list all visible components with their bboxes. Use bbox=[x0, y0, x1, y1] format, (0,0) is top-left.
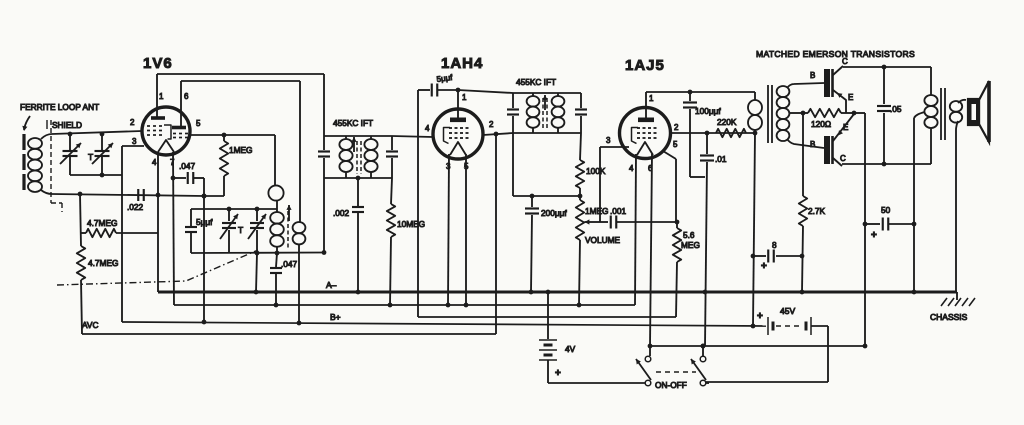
junction switch line / pole2 bbox=[701, 344, 706, 349]
V1 plate pin 6 electrode bbox=[172, 126, 186, 130]
tuning gang dash-dot link bbox=[57, 250, 258, 285]
oscillator transformer T1 tank winding bbox=[270, 212, 284, 224]
IF transformer T3 top rail bbox=[513, 92, 581, 94]
potentiometer R6 1MEG VOLUME bbox=[576, 200, 584, 240]
junction 50uf right bbox=[912, 222, 917, 227]
speaker SP1 cone bbox=[979, 81, 989, 142]
junction 1MEG bottom wire bbox=[202, 194, 207, 199]
capacitor C10 5uuf neutralizing bbox=[418, 89, 430, 91]
wire AVC drop from V2 pin 2 bbox=[495, 134, 497, 334]
junction pin2 / .01 bbox=[705, 131, 710, 136]
svg-text:+: + bbox=[871, 230, 877, 241]
IF transformer T3 left capacitor bbox=[512, 93, 514, 108]
wire secondary center tap bbox=[789, 112, 803, 114]
svg-text:SHIELD: SHIELD bbox=[52, 120, 82, 130]
wire V1 pin 1 rail bbox=[157, 73, 324, 75]
svg-text:1: 1 bbox=[649, 94, 654, 103]
IF transformer T2 left capacitor bbox=[318, 150, 330, 152]
output transformer T5 secondary winding bbox=[950, 101, 962, 112]
svg-text:4: 4 bbox=[425, 124, 430, 133]
junction A- tank drop bbox=[254, 290, 259, 295]
IF transformer T3 core bbox=[542, 98, 544, 130]
junction C2 bottom rail bbox=[100, 173, 105, 178]
wire oscillator tank top rail bbox=[191, 208, 277, 210]
svg-text:T: T bbox=[238, 225, 243, 235]
transistor Q1 emitter bbox=[833, 90, 846, 113]
svg-text:MATCHED EMERSON TRANSISTORS: MATCHED EMERSON TRANSISTORS bbox=[756, 49, 915, 59]
transistor Q1 base bar bbox=[824, 69, 830, 97]
V2 plate electrode bbox=[450, 118, 466, 123]
capacitor C17 50uf electrolytic bbox=[865, 223, 880, 225]
svg-text:+: + bbox=[761, 261, 767, 272]
wire tuning capacitor bottom rail bbox=[70, 174, 122, 176]
svg-text:.022: .022 bbox=[127, 202, 144, 212]
svg-text:CHASSIS: CHASSIS bbox=[930, 312, 968, 322]
resistor R4 10MEG bbox=[391, 178, 392, 204]
wire AVC riser bbox=[81, 280, 82, 334]
junction switch line / pole1 bbox=[648, 344, 653, 349]
wire switch line bbox=[650, 345, 865, 347]
wire Q2 collector rail bbox=[842, 163, 931, 165]
capacitor C4 .047 bbox=[173, 177, 186, 179]
resistor R3 1MEG bbox=[223, 135, 225, 141]
junction lower rail / .05 bbox=[882, 162, 887, 167]
svg-text:B+: B+ bbox=[330, 312, 341, 322]
svg-text:1MEG: 1MEG bbox=[585, 206, 609, 216]
IF transformer T3 primary winding bbox=[532, 93, 534, 96]
V2 screen bracket bbox=[444, 128, 451, 144]
wire V3 pin 6 drop to switch bbox=[650, 154, 652, 346]
resistor R1 4.7MEG horizontal bbox=[81, 232, 86, 234]
wire AVC bus bbox=[82, 333, 496, 335]
svg-text:120Ω: 120Ω bbox=[811, 119, 831, 129]
svg-text:4: 4 bbox=[629, 164, 634, 173]
wire V1 pin 4 drop to A- bus bbox=[157, 152, 159, 292]
junction 220K / driver transformer bbox=[753, 131, 758, 136]
wire Q1 collector rail bbox=[843, 66, 931, 68]
junction antenna top / C1 bbox=[68, 132, 73, 137]
junction IFT1 bottom / .002 bbox=[356, 176, 361, 181]
junction B+ driver primary return bbox=[751, 324, 756, 329]
svg-text:2: 2 bbox=[489, 120, 494, 129]
capacitor C15 .05 bbox=[883, 67, 885, 104]
wire V1 pin 5 plate lead bbox=[190, 134, 275, 136]
junction 2.7K / 8uf bbox=[800, 254, 805, 259]
svg-text:E: E bbox=[843, 123, 848, 132]
junction .022 wire / pin4 drop bbox=[156, 193, 161, 198]
IF transformer T2 tuning arrow bbox=[353, 137, 355, 152]
wire antenna bottom bbox=[52, 194, 204, 196]
resistor R9 120 ohm bbox=[808, 109, 841, 117]
junction .001 output / 5.6MEG bbox=[675, 220, 680, 225]
tube V2 1AH4 envelope bbox=[433, 109, 483, 159]
wire primary center tap to A- bus bbox=[914, 112, 925, 118]
wire oscillator tank bottom rail bbox=[191, 252, 324, 255]
svg-text:3: 3 bbox=[132, 137, 137, 146]
wire V1 pin 6 rail bbox=[181, 80, 300, 82]
svg-text:VOLUME: VOLUME bbox=[585, 235, 621, 245]
svg-text:220K: 220K bbox=[717, 117, 737, 127]
oscillator transformer T1 pickup winding bbox=[299, 221, 300, 223]
svg-text:+: + bbox=[757, 311, 763, 322]
wire secondary bottom to Q2 base bbox=[787, 139, 824, 148]
svg-text:200μμf: 200μμf bbox=[541, 208, 567, 218]
junction switch line / A- drop bbox=[701, 344, 706, 349]
variable capacitor C1 tuning bbox=[69, 134, 71, 150]
svg-text:5: 5 bbox=[196, 119, 201, 128]
svg-text:10MEG: 10MEG bbox=[397, 219, 425, 229]
svg-text:C: C bbox=[840, 154, 846, 163]
resistor R5 100K bbox=[580, 133, 581, 160]
wire 45V return bbox=[811, 325, 828, 327]
transistor Q1 collector bbox=[833, 66, 843, 75]
capacitor C13 100uuf bbox=[689, 92, 691, 101]
resistor R2 4.7MEG vertical bbox=[77, 246, 85, 280]
junction oscillator rail / IF transformer drop bbox=[322, 250, 327, 255]
resistor R7 5.6MEG bbox=[676, 222, 678, 228]
V1 screen bracket bbox=[164, 125, 171, 139]
wire neutralizing drop bbox=[417, 90, 419, 317]
wire detector node bbox=[512, 133, 514, 196]
wire driver primary drop to B+ bus bbox=[753, 133, 755, 326]
V1 filament bbox=[158, 140, 174, 152]
capacitor C5 5uuf oscillator bbox=[190, 209, 192, 226]
junction plate / 1MEG bbox=[222, 133, 227, 138]
wire V3 pin 3 grid lead bbox=[600, 146, 629, 148]
junction antenna top / C2 bbox=[100, 132, 105, 137]
svg-text:FERRITE LOOP ANT: FERRITE LOOP ANT bbox=[20, 102, 99, 112]
junction pin2 / AVC bbox=[494, 132, 499, 137]
speaker SP1 voice coil bbox=[968, 99, 979, 125]
capacitor C9 .002 bbox=[357, 178, 359, 206]
wire V2 plate to IFT2 bbox=[458, 90, 513, 93]
resistor R10 2.7K bbox=[802, 113, 804, 196]
svg-text:5.6: 5.6 bbox=[683, 230, 695, 240]
junction A- 200uuf bbox=[529, 290, 534, 295]
V3 screen bracket bbox=[632, 128, 639, 144]
V3 plate lead pin 1 bbox=[645, 92, 647, 118]
IF transformer T2 top rail bbox=[324, 135, 392, 137]
wire antenna top to pin 2 of V1 bbox=[52, 131, 142, 134]
V2 filament bbox=[450, 142, 466, 155]
svg-text:C: C bbox=[842, 57, 848, 66]
junction A- battery 4V bbox=[546, 290, 551, 295]
wire V2 pin 3 drop bbox=[448, 154, 449, 305]
svg-text:2.7K: 2.7K bbox=[808, 206, 826, 216]
bus filament bbox=[174, 304, 635, 306]
junction switch line / emitters drop bbox=[863, 344, 868, 349]
junction collector rail / .05 bbox=[882, 65, 887, 70]
wire 4.7MEG junction drop bbox=[80, 194, 81, 246]
V3 grid electrodes bbox=[637, 127, 640, 129]
junction filament 10MEG bbox=[388, 303, 393, 308]
junction V2 pin1 / 5uuf bbox=[456, 88, 461, 93]
junction tank top / CT bbox=[227, 207, 232, 212]
tube V3 1AJ5 envelope bbox=[620, 108, 671, 159]
junction antenna bottom wire / grid leak drop bbox=[202, 194, 207, 199]
svg-text:4.7MEG: 4.7MEG bbox=[88, 258, 118, 268]
V2 grid electrodes bbox=[449, 127, 452, 129]
svg-text:B: B bbox=[810, 71, 815, 80]
wire grid return third bus bbox=[418, 316, 676, 318]
svg-text:1: 1 bbox=[462, 93, 467, 102]
junction B+ grid leak drop bbox=[202, 320, 207, 325]
svg-text:1V6: 1V6 bbox=[143, 55, 173, 72]
oscillator transformer T1 core bbox=[287, 211, 289, 248]
switch S1 mechanical link bbox=[656, 371, 696, 373]
wire pin 3 of V1 bbox=[122, 145, 144, 147]
ferrite loop antenna L1 core bbox=[22, 134, 25, 150]
wire grid-leak drop to B+ bus bbox=[203, 178, 205, 322]
svg-text:1AJ5: 1AJ5 bbox=[625, 57, 665, 74]
V3 filament bbox=[637, 142, 653, 155]
junction 50uf left bbox=[863, 222, 868, 227]
svg-text:B: B bbox=[810, 140, 815, 149]
IF transformer T3 tuning arrow bbox=[544, 95, 546, 110]
bus A- bbox=[158, 291, 957, 294]
IF transformer T3 bottom rail bbox=[513, 132, 581, 134]
svg-text:.05: .05 bbox=[890, 104, 902, 114]
svg-text:6: 6 bbox=[184, 92, 189, 101]
oscillator feedback coil L2 bbox=[274, 135, 276, 186]
wire secondary top to Q1 base bbox=[787, 83, 824, 88]
svg-text:E: E bbox=[848, 93, 853, 102]
svg-text:45V: 45V bbox=[780, 306, 795, 316]
junction center tap / 120 ohm / 2.7K bbox=[801, 111, 806, 116]
driver transformer T4 core bbox=[767, 85, 769, 143]
svg-text:.047: .047 bbox=[281, 259, 298, 269]
bus B+ bbox=[122, 322, 766, 326]
wire tank bottom drop to A- bus bbox=[256, 253, 257, 292]
svg-text:5μμf: 5μμf bbox=[196, 217, 213, 227]
switch S1 pole 2 bbox=[700, 356, 706, 362]
junction 8uf / B+ drop bbox=[751, 254, 756, 259]
IF transformer T2 bottom rail bbox=[324, 177, 392, 179]
transistor Q2 emitter bbox=[833, 114, 854, 141]
svg-text:455KC IFT: 455KC IFT bbox=[333, 118, 373, 128]
arrow to antenna core bbox=[24, 116, 30, 130]
svg-text:.002: .002 bbox=[333, 208, 350, 218]
junction A- 2.7K bbox=[800, 290, 805, 295]
wire V3 pin 2 line bbox=[671, 132, 755, 134]
battery B1 4V bbox=[547, 292, 549, 339]
svg-text:3: 3 bbox=[606, 136, 611, 145]
svg-text:1MEG: 1MEG bbox=[229, 145, 253, 155]
wire V2 pin 5 drop bbox=[465, 154, 467, 305]
wire IFT1 to V2 grid pin 4 bbox=[392, 136, 433, 137]
variable capacitor C7 oscillator trimmer bbox=[256, 209, 258, 221]
junction A- .002 bbox=[356, 290, 361, 295]
svg-text:AVC: AVC bbox=[82, 320, 98, 330]
resistor R8 220K bbox=[716, 129, 746, 137]
chassis ground symbol bbox=[956, 292, 958, 300]
junction filament V2 pin5 bbox=[464, 303, 469, 308]
output transformer T5 primary winding bbox=[930, 67, 932, 95]
junction filament volume bbox=[577, 303, 582, 308]
svg-text:5: 5 bbox=[673, 140, 678, 149]
svg-text:4: 4 bbox=[152, 158, 157, 167]
wire V3 pin 4 drop to filament bus bbox=[635, 154, 636, 305]
V3 plate electrode bbox=[638, 118, 654, 123]
wire emitters to 50uf and switch line bbox=[854, 112, 865, 114]
junction antenna bottom / 4.7MEG bbox=[78, 192, 83, 197]
svg-text:1AH4: 1AH4 bbox=[441, 55, 483, 72]
capacitor C3 .022 bbox=[137, 189, 139, 201]
shield dashed line bbox=[50, 120, 52, 203]
wire battery to switch pole 1 bbox=[548, 382, 645, 384]
junction tank top / C7 bbox=[255, 207, 260, 212]
IF transformer T2 secondary winding bbox=[370, 136, 372, 139]
capacitor C14 .01 bbox=[706, 133, 708, 154]
transistor Q2 base bar bbox=[824, 136, 830, 164]
junction pin7 / .047 bbox=[171, 176, 176, 181]
tube V1 1V6 envelope bbox=[142, 107, 190, 155]
capacitor C16 8uf electrolytic bbox=[753, 255, 766, 257]
svg-text:100μμf: 100μμf bbox=[695, 106, 721, 116]
wire speaker return to chassis bbox=[955, 130, 957, 292]
capacitor C11 200uuf bbox=[531, 196, 533, 207]
junction emitters bbox=[852, 111, 857, 116]
IF transformer T3 secondary winding bbox=[557, 93, 559, 96]
driver transformer T4 secondary winding bbox=[777, 86, 790, 97]
svg-text:455KC IFT: 455KC IFT bbox=[516, 77, 556, 87]
V1 pin 6 lead bbox=[180, 81, 182, 128]
svg-text:.01: .01 bbox=[715, 154, 727, 164]
wire V1 pin 7 drop to filament bus bbox=[173, 152, 174, 305]
switch S1 pole 1 bbox=[645, 356, 651, 362]
V1 pin 1 lead bbox=[156, 74, 158, 118]
wire V3 pin 5 grid lead bbox=[663, 151, 676, 159]
junction .01 drop on A- bus bbox=[703, 290, 708, 295]
wire pole2 bottom bbox=[706, 382, 709, 384]
svg-text:MEG: MEG bbox=[681, 240, 700, 250]
svg-text:50: 50 bbox=[881, 205, 891, 215]
driver transformer T4 primary winding bbox=[754, 92, 756, 100]
svg-text:+: + bbox=[555, 368, 561, 379]
svg-text:.047: .047 bbox=[179, 161, 196, 171]
wire V2 pin 2 to detector bbox=[483, 133, 513, 135]
svg-text:8: 8 bbox=[772, 240, 777, 250]
junction filament V2 pin3 bbox=[446, 303, 451, 308]
svg-text:.001: .001 bbox=[610, 206, 627, 216]
svg-text:2: 2 bbox=[674, 123, 679, 132]
V1 plate pin 1 electrode bbox=[151, 116, 165, 120]
junction B+ oscillator pickup bbox=[297, 321, 302, 326]
wire tuned-circuit return to B+ bus bbox=[121, 146, 123, 322]
svg-text:5μμf: 5μμf bbox=[436, 73, 454, 84]
svg-text:100K: 100K bbox=[586, 166, 606, 176]
ferrite loop antenna L1 winding bbox=[28, 138, 42, 149]
junction 100K / volume top bbox=[578, 194, 583, 199]
svg-text:1: 1 bbox=[159, 92, 164, 101]
IF transformer T3 right capacitor bbox=[580, 93, 582, 108]
output transformer T5 core bbox=[940, 88, 942, 140]
wire V3 plate rail bbox=[646, 91, 755, 93]
variable capacitor C6 oscillator tuning T bbox=[228, 209, 230, 221]
svg-text:T: T bbox=[88, 152, 93, 162]
svg-text:2: 2 bbox=[130, 118, 135, 127]
svg-text:ON-OFF: ON-OFF bbox=[655, 380, 687, 390]
svg-text:A–: A– bbox=[326, 280, 337, 290]
junction detector / 200uuf bbox=[530, 194, 535, 199]
svg-text:4.7MEG: 4.7MEG bbox=[87, 218, 117, 228]
V2 plate lead pin 1 bbox=[457, 90, 459, 118]
junction tank bottom / drop bbox=[255, 251, 260, 256]
IF transformer T2 primary winding bbox=[345, 136, 347, 139]
junction A- center tap bbox=[912, 290, 917, 295]
junction filament .047 osc bbox=[274, 303, 279, 308]
capacitor C12 .001 bbox=[593, 221, 608, 223]
IF transformer T2 core bbox=[356, 141, 358, 174]
V1 grid electrodes bbox=[147, 125, 150, 127]
IF transformer T2 right capacitor bbox=[391, 136, 393, 150]
capacitor C8 .047 oscillator bbox=[276, 253, 277, 267]
transistor Q2 collector bbox=[833, 158, 842, 166]
variable capacitor C2 trimmer T bbox=[101, 134, 103, 150]
svg-text:4V: 4V bbox=[565, 344, 576, 354]
junction plate rail / 100uuf bbox=[688, 90, 693, 95]
junction tank bottom / .047 drop bbox=[275, 251, 280, 256]
